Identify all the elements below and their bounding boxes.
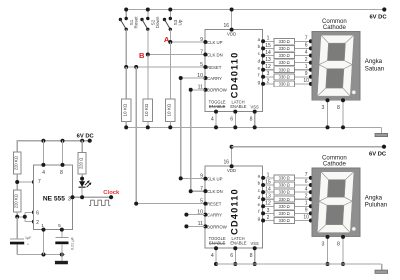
svg-text:Down: Down <box>155 16 160 28</box>
resistor R3 220 Ω <box>78 141 86 174</box>
wire RESET branch to U2 pin 5 <box>136 67 205 204</box>
capacitor C1 1uF electrolytic <box>10 236 32 246</box>
node pin 3 <box>71 195 75 199</box>
wire 6V top rail <box>126 9 384 11</box>
resistor R6 10 KΩ <box>166 99 176 128</box>
wire node A to CLK UP pin 9 <box>170 41 205 43</box>
pin 7 CLK DN U1 <box>200 49 223 57</box>
svg-text:6: 6 <box>305 43 308 49</box>
svg-text:3: 3 <box>322 105 325 111</box>
svg-text:8: 8 <box>337 241 340 247</box>
svg-text:7: 7 <box>305 36 308 42</box>
svg-text:7: 7 <box>200 49 203 55</box>
svg-text:6: 6 <box>305 179 308 185</box>
svg-text:220 Ω: 220 Ω <box>78 158 83 169</box>
svg-text:RESET: RESET <box>207 202 222 207</box>
svg-text:220 KΩ: 220 KΩ <box>13 156 18 170</box>
counter U1 CD40110 box <box>205 30 263 112</box>
svg-text:330 Ω: 330 Ω <box>279 39 290 44</box>
pin 6 display segment b block1 <box>305 43 317 51</box>
svg-text:2: 2 <box>267 215 270 221</box>
label TOGGLE ENABLE U1 <box>209 99 226 109</box>
wire R3 to LED <box>81 174 83 181</box>
svg-text:BORROW: BORROW <box>207 224 228 229</box>
svg-text:330 Ω: 330 Ω <box>279 74 290 79</box>
wire R1 to R2 with pin7 tap <box>17 174 34 190</box>
svg-text:0,01 µF: 0,01 µF <box>71 236 75 250</box>
pin 12 output e U2 <box>258 201 271 209</box>
pin 1 display segment e block1 <box>305 64 317 72</box>
wire CARRY U1 to CLK UP U2 <box>181 78 205 178</box>
label TOGGLE ENABLE U2 <box>209 236 226 246</box>
wire segment b row U2 <box>263 184 312 186</box>
node CARRY corner bottom <box>179 176 183 180</box>
svg-text:1µF: 1µF <box>25 236 32 240</box>
pin 15 output b U1 <box>258 43 271 51</box>
wire segment g row U2 <box>263 220 312 222</box>
svg-text:Satuan: Satuan <box>365 65 384 72</box>
svg-text:1: 1 <box>305 201 308 207</box>
square wave symbol <box>89 200 110 205</box>
wire pin 4 to rail <box>42 141 44 165</box>
pin 6 U1 bottom <box>230 110 237 130</box>
wire segment b row U1 <box>263 47 312 49</box>
svg-text:3: 3 <box>267 71 270 77</box>
svg-text:VDD: VDD <box>227 32 236 37</box>
node junction R3 top on 555 rail <box>80 139 84 143</box>
node R2 bottom junction <box>15 215 19 219</box>
pin 16 VDD U1 <box>223 8 236 37</box>
wire 6V rail of NE555 block <box>17 140 90 152</box>
node clock terminal <box>109 195 113 199</box>
node pin 6 <box>32 210 36 214</box>
pin 11 BORROW U1 <box>198 85 228 93</box>
wire B column down to pull-down resistor <box>147 55 149 99</box>
node C2 column on 0V rail <box>60 253 64 257</box>
pin 7 display segment a block1 <box>305 36 317 44</box>
pin 6 display segment b block2 <box>305 179 317 187</box>
svg-text:330 Ω: 330 Ω <box>279 176 290 181</box>
resistor R5 10 KΩ <box>143 99 153 128</box>
resistor R4 10 KΩ <box>121 99 131 128</box>
node pin 8 <box>61 163 65 167</box>
pin 13 output d U1 <box>258 57 271 65</box>
svg-text:CARRY: CARRY <box>207 213 222 218</box>
resistor 330 Ω row b block1 <box>274 46 295 52</box>
node pin 4 <box>41 163 45 167</box>
svg-text:6V DC: 6V DC <box>369 152 387 158</box>
node RESET S1 column <box>124 65 128 69</box>
wire 0V rail block2 <box>216 264 382 270</box>
label LATCH ENABLE U1 <box>230 99 246 109</box>
seven segment display 1 body <box>312 31 360 100</box>
node A <box>168 40 172 44</box>
svg-text:CLK UP: CLK UP <box>207 177 223 182</box>
node pull-down resistor bottom <box>168 125 172 129</box>
pin 3 output f U1 <box>258 71 269 79</box>
svg-text:4: 4 <box>211 117 214 123</box>
svg-text:9: 9 <box>305 71 308 77</box>
svg-text:2: 2 <box>267 78 270 84</box>
svg-text:CLK DN: CLK DN <box>207 189 223 194</box>
svg-text:8: 8 <box>250 117 253 123</box>
svg-text:6V DC: 6V DC <box>77 134 95 140</box>
pin 7 CLK DN U2 <box>200 186 223 194</box>
svg-text:6: 6 <box>230 117 233 123</box>
pin 9 display segment f block1 <box>305 71 316 79</box>
resistor 330 Ω row a block1 <box>274 38 295 44</box>
wire 6V rail block2 <box>232 146 384 148</box>
svg-text:7: 7 <box>200 186 203 192</box>
svg-text:3: 3 <box>68 196 71 202</box>
pin 9 CLK UP U1 <box>200 37 223 45</box>
label Angka Satuan <box>365 58 384 72</box>
pin 7 display segment a block2 <box>305 172 317 180</box>
wire C1 bottom to 0V rail <box>16 244 18 254</box>
wire node B to CLK DN pin 7 <box>148 54 205 56</box>
pin 9 CLK UP U2 <box>200 173 223 181</box>
svg-text:CD40110: CD40110 <box>229 188 239 235</box>
pin 3 common display 1 <box>322 98 330 129</box>
wire segment g row U1 <box>263 83 312 85</box>
pin 3 output f U2 <box>258 208 269 216</box>
svg-text:330 Ω: 330 Ω <box>279 53 290 58</box>
pin 4 U1 bottom <box>211 110 218 130</box>
pin 10 CARRY U2 <box>197 209 222 217</box>
label LATCH ENABLE U2 <box>230 236 246 246</box>
ground bar block2 <box>375 270 388 273</box>
pin 12 output e U1 <box>258 64 271 72</box>
resistor 330 Ω row c block1 <box>274 53 295 59</box>
node 6V DC terminal block2 <box>382 145 386 149</box>
node fork junction <box>23 215 27 219</box>
svg-text:ENABLE: ENABLE <box>230 241 246 246</box>
svg-text:4: 4 <box>305 186 308 192</box>
svg-text:Puluhan: Puluhan <box>365 202 387 209</box>
pin 1 display segment e block2 <box>305 201 317 209</box>
pin 14 output c U1 <box>258 50 271 58</box>
node R1-R2 junction <box>15 180 19 184</box>
svg-text:ENABLE: ENABLE <box>230 104 246 109</box>
node CARRY corner top <box>179 76 183 80</box>
svg-text:330 Ω: 330 Ω <box>279 183 290 188</box>
svg-text:RESET: RESET <box>207 65 222 70</box>
pin 5 RESET U2 <box>200 198 222 206</box>
pin 8 common display 2 <box>337 235 345 266</box>
wire CARRY U2 stub <box>186 214 205 216</box>
resistor 330 Ω row a block2 <box>274 175 295 181</box>
wire S2 column down to node B <box>147 29 149 54</box>
svg-text:14: 14 <box>265 50 271 56</box>
op-amp U1 NE 555 box <box>34 165 73 230</box>
svg-text:330 Ω: 330 Ω <box>279 218 290 223</box>
node pin8 column on 555 rail <box>61 139 65 143</box>
svg-text:8: 8 <box>250 253 253 259</box>
resistor 330 Ω row c block2 <box>274 189 295 195</box>
svg-text:330 Ω: 330 Ω <box>279 197 290 202</box>
svg-text:330 Ω: 330 Ω <box>279 211 290 216</box>
resistor 330 Ω row d block2 <box>274 196 295 202</box>
capacitor C2 0,01 uF <box>55 236 74 250</box>
resistor R1 220 KΩ <box>13 152 21 174</box>
pin 8 common display 1 <box>337 98 345 129</box>
svg-text:Angka: Angka <box>365 194 383 201</box>
resistor 330 Ω row f block2 <box>274 211 295 217</box>
svg-text:8: 8 <box>60 170 63 176</box>
node pin 7 <box>32 180 36 184</box>
svg-text:Cathode: Cathode <box>323 24 347 31</box>
resistor 330 Ω row b block2 <box>274 182 295 188</box>
svg-text:Cathode: Cathode <box>323 161 347 168</box>
svg-text:Clock: Clock <box>103 190 120 196</box>
svg-text:7: 7 <box>305 172 308 178</box>
svg-text:16: 16 <box>223 23 229 29</box>
svg-text:16: 16 <box>223 160 229 166</box>
svg-text:13: 13 <box>265 194 271 200</box>
svg-text:1: 1 <box>305 64 308 70</box>
svg-text:330 Ω: 330 Ω <box>279 190 290 195</box>
wire segment c row U1 <box>263 55 312 57</box>
switch S3 Up <box>163 8 183 31</box>
wire junction down to capacitor C1 <box>16 217 18 239</box>
svg-text:+: + <box>27 243 29 247</box>
node pin 2 <box>32 220 36 224</box>
display 2 digit segments <box>317 172 354 233</box>
svg-text:Angka: Angka <box>365 58 383 65</box>
svg-text:9: 9 <box>200 173 203 179</box>
svg-text:VSS: VSS <box>250 241 258 246</box>
svg-text:10 KΩ: 10 KΩ <box>122 103 127 116</box>
svg-text:10 KΩ: 10 KΩ <box>167 103 172 116</box>
svg-text:CLK DN: CLK DN <box>207 52 223 57</box>
node CARRY U2 stub end <box>184 213 188 217</box>
node LED column joins clock line <box>80 195 84 199</box>
node BORROW corner top <box>189 88 193 92</box>
wire S1 column down to pull-down resistor <box>125 67 127 99</box>
wire S1 column down to RESET line <box>125 29 127 67</box>
svg-text:10: 10 <box>303 78 309 84</box>
svg-text:3: 3 <box>322 241 325 247</box>
node pin 1 <box>42 228 46 232</box>
svg-text:15: 15 <box>265 43 271 49</box>
svg-text:4: 4 <box>42 170 45 176</box>
node RESET branch corner <box>134 202 138 206</box>
pin 10 display segment g block2 <box>303 215 316 223</box>
svg-text:12: 12 <box>265 201 271 207</box>
svg-text:CARRY: CARRY <box>207 76 222 81</box>
svg-text:6: 6 <box>230 253 233 259</box>
svg-text:330 Ω: 330 Ω <box>279 82 290 87</box>
display 2 decimal point <box>352 227 356 231</box>
pin 15 output b U2 <box>258 179 271 187</box>
label Common Cathode display 2 <box>322 154 347 167</box>
wire BORROW U1 to CLK DN U2 <box>191 90 205 191</box>
svg-text:2: 2 <box>305 193 308 199</box>
pin 5 RESET U1 <box>200 62 222 70</box>
svg-text:VSS: VSS <box>250 105 258 110</box>
svg-text:VDD: VDD <box>227 168 236 173</box>
wire segment e row U1 <box>263 69 312 71</box>
wire BORROW U2 stub <box>186 225 205 227</box>
svg-text:4: 4 <box>211 253 214 259</box>
svg-text:14: 14 <box>265 187 271 193</box>
node RESET branch to IC2 <box>134 65 138 69</box>
svg-text:4: 4 <box>305 50 308 56</box>
wire S3 column down to node A <box>169 29 171 42</box>
pin 2 output g U1 <box>258 78 270 86</box>
node 6V DC terminal of 555 block <box>88 139 92 143</box>
svg-text:Up: Up <box>178 19 183 25</box>
svg-text:6V DC: 6V DC <box>369 15 387 21</box>
svg-text:3: 3 <box>267 208 270 214</box>
wire segment f row U1 <box>263 76 312 78</box>
ground bar of 555 block <box>55 255 67 265</box>
svg-text:CD40110: CD40110 <box>229 52 239 99</box>
svg-text:220 KΩ: 220 KΩ <box>13 194 18 208</box>
svg-text:9: 9 <box>200 37 203 43</box>
wire pin 1 down to 0V rail <box>43 230 45 255</box>
svg-text:CLK UP: CLK UP <box>207 40 223 45</box>
node BORROW corner bottom <box>189 189 193 193</box>
pin 3 common display 2 <box>322 235 330 266</box>
pin 4 display segment c block1 <box>305 50 316 58</box>
pin 14 output c U2 <box>258 187 271 195</box>
pin 13 output d U2 <box>258 194 271 202</box>
wire R2 bottom to pins 6 and 2 fork <box>17 212 34 222</box>
pin 8 U2 bottom <box>250 246 257 266</box>
node pull-down resistor bottom <box>146 125 150 129</box>
wire segment d row U2 <box>263 198 312 200</box>
pin 2 display segment d block2 <box>305 193 317 201</box>
node 6V DC terminal top right <box>382 7 386 11</box>
LED D1 <box>79 180 92 187</box>
svg-text:5: 5 <box>200 198 203 204</box>
svg-text:8: 8 <box>337 105 340 111</box>
pin 10 CARRY U1 <box>197 73 222 81</box>
resistor 330 Ω row f block1 <box>274 74 295 80</box>
pin 10 display segment g block1 <box>303 78 316 86</box>
switch S1 Reset <box>119 8 139 31</box>
svg-text:13: 13 <box>265 57 271 63</box>
counter U2 CD40110 box <box>205 166 263 248</box>
ground bar block1 <box>375 133 388 136</box>
node BORROW U2 stub end <box>184 224 188 228</box>
svg-text:10 KΩ: 10 KΩ <box>144 103 149 116</box>
wire A column down to pull-down resistor <box>169 42 171 99</box>
pin 1 output a U2 <box>258 172 270 180</box>
svg-text:330 Ω: 330 Ω <box>279 60 290 65</box>
svg-text:7: 7 <box>38 179 41 185</box>
resistor 330 Ω row e block1 <box>274 67 295 73</box>
svg-text:1: 1 <box>267 172 270 178</box>
wire pin 5 down to C2 <box>61 230 63 238</box>
wire 0V rail block1 <box>126 127 381 133</box>
svg-text:Reset: Reset <box>134 16 139 29</box>
node B <box>146 53 150 57</box>
svg-text:12: 12 <box>265 64 271 70</box>
pin 6 U2 bottom <box>230 246 237 266</box>
svg-text:1: 1 <box>267 36 270 42</box>
node pin1 column on 0V rail <box>42 253 46 257</box>
wire segment f row U2 <box>263 212 312 214</box>
svg-text:2: 2 <box>305 57 308 63</box>
pin 1 output a U1 <box>258 36 270 44</box>
wire segment d row U1 <box>263 62 312 64</box>
switch S2 Down <box>140 8 160 31</box>
display 1 decimal point <box>352 90 356 94</box>
svg-text:BORROW: BORROW <box>207 88 228 93</box>
svg-text:NE 555: NE 555 <box>43 195 65 202</box>
svg-text:6: 6 <box>36 211 39 217</box>
resistor 330 Ω row e block2 <box>274 203 295 209</box>
resistor 330 Ω row g block1 <box>274 81 295 87</box>
label Angka Puluhan <box>365 194 387 208</box>
svg-text:9: 9 <box>305 208 308 214</box>
node LED anode <box>80 177 84 181</box>
pin 9 display segment f block2 <box>305 208 316 216</box>
wire segment a row U2 <box>263 177 312 179</box>
pin 4 display segment c block2 <box>305 186 316 194</box>
wire 0V rail of 555 block <box>17 254 65 256</box>
wire C2 bottom to 0V rail <box>61 244 63 254</box>
svg-text:15: 15 <box>265 179 271 185</box>
svg-text:10: 10 <box>303 215 309 221</box>
wire segment e row U2 <box>263 205 312 207</box>
node pull-down resistor bottom <box>124 125 128 129</box>
wire pin 3 clock output <box>73 196 112 198</box>
resistor 330 Ω row g block2 <box>274 218 295 224</box>
node pin4 column on 555 rail <box>41 139 45 143</box>
resistor 330 Ω row d block1 <box>274 60 295 66</box>
pin 2 output g U2 <box>258 215 270 223</box>
display 1 digit segments <box>317 35 354 96</box>
svg-text:5: 5 <box>200 62 203 68</box>
svg-text:2: 2 <box>36 220 39 226</box>
seven segment display 2 body <box>312 168 360 237</box>
node pin 5 <box>60 228 64 232</box>
resistor R2 220 KΩ <box>13 190 21 212</box>
wire RESET line to pin 5 <box>126 66 205 68</box>
pin 16 VDD U2 <box>223 145 236 173</box>
pin 2 display segment d block1 <box>305 57 317 65</box>
svg-text:B: B <box>139 51 145 60</box>
svg-text:330 Ω: 330 Ω <box>279 46 290 51</box>
label Common Cathode display 1 <box>322 18 347 31</box>
wire pin 8 to rail <box>62 141 64 165</box>
wire LED cathode to pin3 line <box>81 187 83 197</box>
wire segment a row U1 <box>263 40 312 42</box>
svg-text:330 Ω: 330 Ω <box>279 67 290 72</box>
pin 8 U1 bottom <box>250 110 257 130</box>
svg-text:330 Ω: 330 Ω <box>279 204 290 209</box>
pin 4 U2 bottom <box>211 246 218 266</box>
pin 11 BORROW U2 <box>198 221 228 229</box>
wire segment c row U2 <box>263 191 312 193</box>
